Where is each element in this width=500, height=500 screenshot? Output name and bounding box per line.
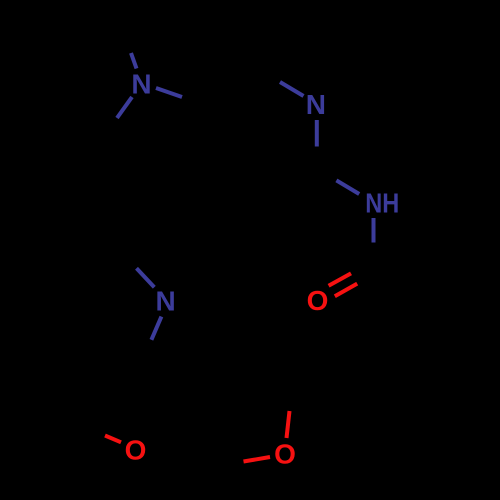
svg-text:N: N xyxy=(155,285,175,316)
wire ether O half-bond xyxy=(105,436,121,443)
wire NH-C(=O) half-bond xyxy=(372,218,376,243)
svg-text:NH: NH xyxy=(365,188,399,219)
wire C7-N2 half-bond xyxy=(280,82,304,96)
svg-text:O: O xyxy=(307,285,329,316)
wire furan O left half-bond xyxy=(244,457,271,462)
svg-text:O: O xyxy=(125,435,147,466)
wire N1-CH3 half-bond xyxy=(131,53,137,69)
wire amine N up-left half-bond xyxy=(137,268,155,287)
wire N1-C7a half-bond xyxy=(156,88,182,97)
wire amine N down-left half-bond xyxy=(151,317,161,340)
wire N2-C6 half-bond xyxy=(315,120,319,147)
wire C=O double bond inner line xyxy=(335,284,357,297)
svg-text:N: N xyxy=(131,69,151,100)
wire furan O up half-bond xyxy=(287,411,290,438)
wire C=O double bond outer line xyxy=(329,273,351,285)
svg-text:O: O xyxy=(274,439,296,470)
svg-text:N: N xyxy=(306,89,326,120)
wire C6-NH half-bond xyxy=(336,180,359,194)
wire N1-C2 half-bond xyxy=(117,97,132,118)
